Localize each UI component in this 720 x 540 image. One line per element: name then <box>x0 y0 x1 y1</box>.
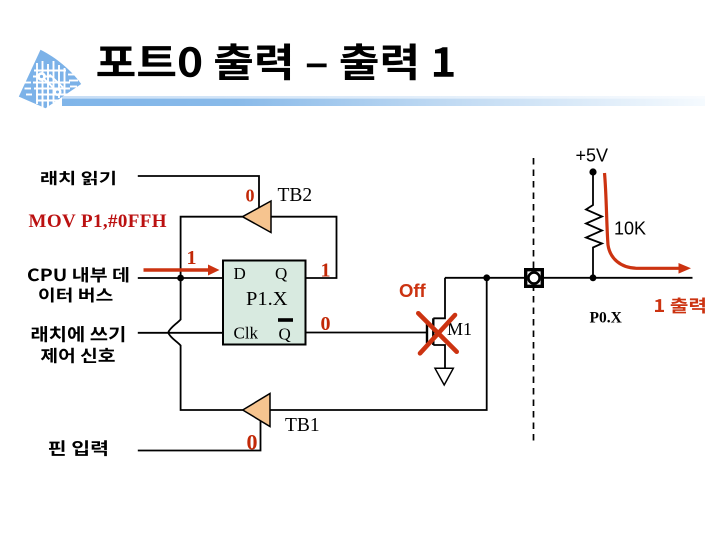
title underline bar <box>62 96 705 99</box>
red current path through pull-up to output <box>605 173 681 268</box>
label 제어 신호 (line 2) <box>41 348 115 364</box>
wire Q-bar output to M1 gate <box>306 332 427 334</box>
label CPU 내부 데이터 버스 (line 1) <box>28 267 128 283</box>
svg-text:0: 0 <box>321 313 331 335</box>
svg-text:TB1: TB1 <box>285 415 320 436</box>
svg-text:Clk: Clk <box>234 324 259 343</box>
junction resistor to pin net <box>590 274 597 281</box>
wire pin-input control to TB1 enable <box>138 421 261 451</box>
label 래치에 쓰기 (line 1) <box>32 326 124 342</box>
wire TB1 input from pin node <box>270 278 487 410</box>
svg-text:1: 1 <box>187 247 197 269</box>
resistor 10K pull-up <box>586 172 602 278</box>
label 1 출력 (output 1) <box>655 298 705 314</box>
port pin symbol P0.X <box>526 270 543 287</box>
tri-state buffer TB1 <box>243 394 270 427</box>
svg-text:0: 0 <box>246 186 255 206</box>
wire Q output to TB2 input <box>271 217 337 278</box>
svg-text:TB2: TB2 <box>278 185 313 206</box>
ground <box>435 368 453 385</box>
chip boundary dashed line <box>533 158 535 443</box>
wire latch-write control to Clk input <box>138 332 223 334</box>
svg-text:D: D <box>234 264 246 283</box>
transistor M1 (NMOS pull-down) <box>427 278 445 369</box>
D flip-flop latch P1.X <box>223 261 306 345</box>
wire pin net horizontal <box>445 277 693 279</box>
svg-text:Q: Q <box>279 325 291 344</box>
svg-text:Q: Q <box>275 264 287 283</box>
tri-state buffer TB2 <box>243 201 272 233</box>
slide title: 포트0 출력 - 출력 1 <box>97 43 453 80</box>
svg-text:P0.X: P0.X <box>590 310 623 327</box>
+5V node dot <box>589 168 596 175</box>
svg-text:P1.X: P1.X <box>246 288 288 310</box>
wire read-latch control to TB2 enable <box>138 176 259 208</box>
svg-text:10K: 10K <box>614 219 646 239</box>
junction pin node <box>483 274 490 281</box>
junction internal bus at D <box>177 275 184 282</box>
red arrow: data 1 driven onto bus <box>144 265 220 276</box>
red X: M1 disabled <box>418 313 456 353</box>
wire internal read bus: TB2 output down (hop over Clk) to TB1 output <box>168 217 243 410</box>
svg-text:+5V: +5V <box>576 146 609 166</box>
svg-text:Off: Off <box>399 280 427 301</box>
svg-text:1: 1 <box>321 260 331 282</box>
svg-text:MOV P1,#0FFH: MOV P1,#0FFH <box>29 211 168 232</box>
label 핀 입력 (pin input) <box>49 440 107 456</box>
label 래치 읽기 (read latch) <box>41 171 115 186</box>
wire CPU internal data bus to D input <box>138 277 223 279</box>
label CPU 내부 데이터 버스 (line 2) <box>39 287 112 302</box>
logo chip emblem <box>19 50 81 111</box>
